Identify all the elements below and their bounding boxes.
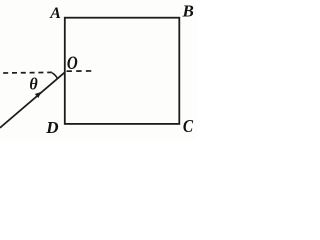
- svg-text:O: O: [67, 52, 78, 73]
- svg-text:A: A: [49, 5, 61, 22]
- svg-text:D: D: [45, 118, 58, 137]
- svg-text:C: C: [183, 116, 194, 136]
- svg-text:B: B: [182, 1, 194, 20]
- svg-text:θ: θ: [29, 74, 38, 94]
